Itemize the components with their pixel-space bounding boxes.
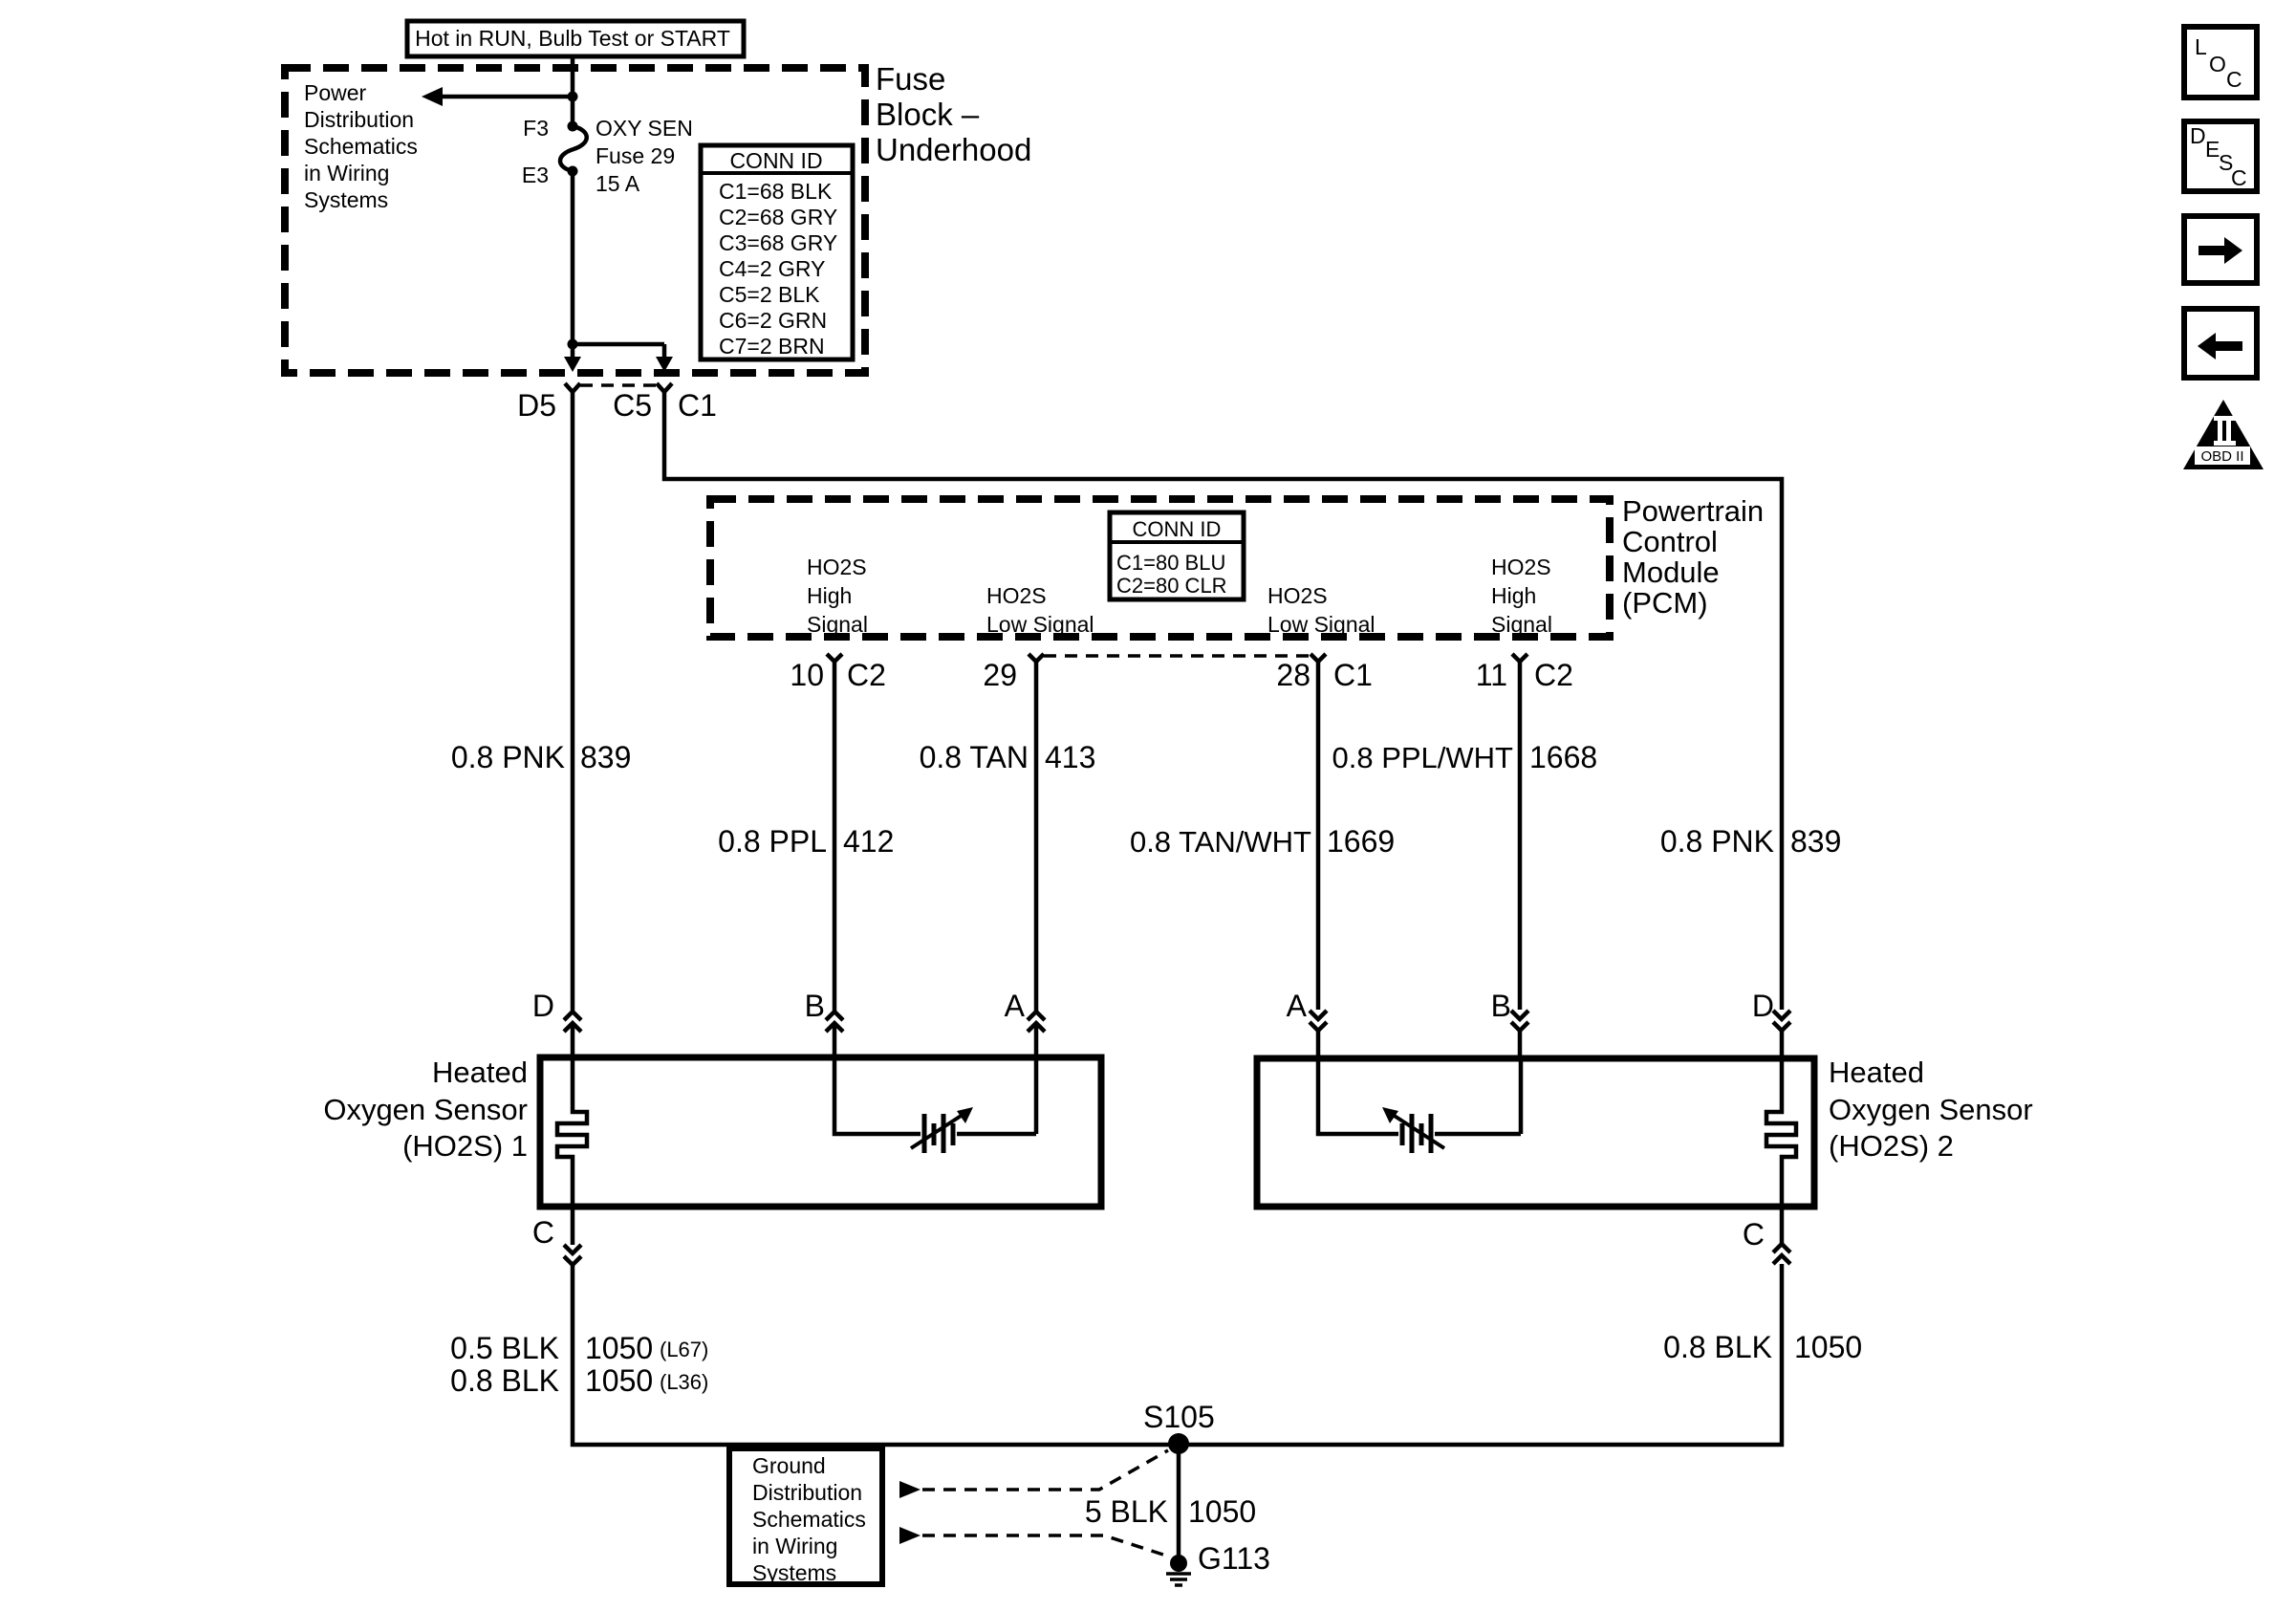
svg-text:Underhood: Underhood: [876, 132, 1031, 167]
svg-text:839: 839: [1790, 824, 1841, 859]
svg-text:High: High: [1491, 583, 1536, 608]
wire: branch to C1: [573, 344, 664, 358]
svg-text:(HO2S) 2: (HO2S) 2: [1829, 1129, 1954, 1163]
conn id table (fuse block): [701, 145, 853, 359]
wire: 5 BLK 1050 to ground: [1177, 1444, 1181, 1563]
label: 0.8 BLK 1050 (right): [1663, 1330, 1862, 1364]
svg-text:Module: Module: [1622, 555, 1720, 589]
svg-text:C1=68 BLK: C1=68 BLK: [719, 179, 833, 204]
svg-text:S105: S105: [1143, 1400, 1215, 1434]
svg-text:Low Signal: Low Signal: [1267, 612, 1375, 637]
svg-text:412: 412: [843, 824, 894, 859]
conn id table (PCM): [1110, 512, 1244, 599]
svg-text:Schematics: Schematics: [752, 1507, 866, 1532]
pin 11 C2 connector: [1476, 654, 1573, 692]
pin 10 C2 connector: [790, 654, 886, 692]
svg-text:0.8 PPL: 0.8 PPL: [718, 824, 827, 859]
svg-text:C1: C1: [1333, 658, 1373, 692]
svg-text:0.8 PPL/WHT: 0.8 PPL/WHT: [1332, 741, 1514, 774]
heater element (HO2S1): [557, 1057, 587, 1207]
svg-text:Signal: Signal: [807, 612, 868, 637]
svg-text:C: C: [532, 1215, 554, 1250]
svg-text:A: A: [1287, 989, 1308, 1023]
connector C5 | C1: [613, 383, 717, 423]
svg-text:1050: 1050: [585, 1363, 653, 1398]
icon arrow left: [2184, 309, 2257, 378]
svg-text:Fuse 29: Fuse 29: [596, 143, 675, 168]
svg-text:1050: 1050: [1188, 1494, 1256, 1529]
svg-text:Distribution: Distribution: [304, 107, 414, 132]
label: HO2S High Signal (right): [1491, 555, 1552, 637]
wire: TAN 413: [1034, 662, 1039, 1011]
svg-text:Oxygen Sensor: Oxygen Sensor: [323, 1093, 528, 1126]
connector A (HO2S1): [1005, 989, 1045, 1057]
connector D5: [517, 383, 580, 423]
svg-text:(L67): (L67): [660, 1338, 708, 1361]
svg-text:(L36): (L36): [660, 1370, 708, 1394]
svg-text:Control: Control: [1622, 525, 1718, 558]
connector C (HO2S1): [532, 1207, 581, 1265]
svg-text:0.8 TAN: 0.8 TAN: [920, 740, 1029, 774]
heater element (HO2S2): [1766, 1058, 1796, 1207]
connector B (HO2S1): [805, 989, 843, 1057]
connector C (HO2S2): [1743, 1207, 1790, 1264]
svg-text:C7=2 BRN: C7=2 BRN: [719, 334, 825, 359]
svg-text:413: 413: [1045, 740, 1095, 774]
svg-text:High: High: [807, 583, 852, 608]
svg-text:Schematics: Schematics: [304, 134, 418, 159]
svg-text:G113: G113: [1198, 1541, 1270, 1576]
svg-text:D: D: [1752, 989, 1774, 1023]
svg-text:HO2S: HO2S: [1491, 555, 1551, 579]
svg-text:Systems: Systems: [752, 1560, 836, 1585]
svg-text:C: C: [2226, 67, 2242, 92]
svg-text:0.8 TAN/WHT: 0.8 TAN/WHT: [1130, 825, 1311, 859]
svg-text:Heated: Heated: [1829, 1056, 1924, 1089]
sensor cell (HO2S2): [1318, 1058, 1521, 1153]
svg-text:1669: 1669: [1327, 824, 1395, 859]
svg-text:O: O: [2209, 52, 2226, 76]
label: Heated Oxygen Sensor (HO2S) 1: [323, 1056, 528, 1163]
label: Heated Oxygen Sensor (HO2S) 2: [1829, 1056, 2033, 1163]
svg-text:Signal: Signal: [1491, 612, 1552, 637]
connector D (HO2S2): [1752, 989, 1790, 1058]
svg-text:Low Signal: Low Signal: [986, 612, 1094, 637]
svg-text:F3: F3: [523, 116, 549, 141]
wire: branch to power distribution arrow: [441, 95, 573, 99]
svg-text:5 BLK: 5 BLK: [1085, 1494, 1168, 1529]
label: Powertrain Control Module (PCM): [1622, 494, 1764, 620]
svg-text:C1=80 BLU: C1=80 BLU: [1116, 551, 1225, 575]
splice S105: [1143, 1400, 1215, 1454]
wire: PPL 412: [833, 662, 837, 1011]
svg-text:11: 11: [1476, 658, 1507, 692]
svg-text:C6=2 GRN: C6=2 GRN: [719, 308, 827, 333]
svg-text:in Wiring: in Wiring: [304, 161, 389, 185]
svg-text:28: 28: [1276, 658, 1310, 692]
dashed reference arrow upper: [899, 1450, 1168, 1498]
svg-text:1668: 1668: [1529, 740, 1597, 774]
svg-text:D: D: [2190, 123, 2206, 148]
svg-text:OXY SEN: OXY SEN: [596, 116, 693, 141]
sensor cell (HO2S1): [834, 1057, 1036, 1153]
svg-text:Powertrain: Powertrain: [1622, 494, 1764, 528]
ground distribution label box: [729, 1448, 882, 1585]
svg-text:B: B: [1491, 989, 1511, 1023]
svg-text:E3: E3: [522, 163, 549, 187]
svg-text:Distribution: Distribution: [752, 1480, 862, 1505]
icon arrow right: [2184, 216, 2257, 283]
svg-text:OBD II: OBD II: [2200, 448, 2243, 465]
svg-text:Oxygen Sensor: Oxygen Sensor: [1829, 1093, 2033, 1126]
wire: dashed connector tie D5-C5: [580, 383, 657, 387]
wire: feed from Hot label into fuse block: [571, 56, 575, 122]
label: 0.5 BLK 1050 (L67) / 0.8 BLK 1050 (L36): [450, 1331, 708, 1398]
connector B (HO2S2): [1491, 989, 1528, 1058]
pin 28 C1 connector: [1276, 654, 1373, 692]
svg-text:C3=68 GRY: C3=68 GRY: [719, 230, 837, 255]
label: HO2S High Signal (left): [807, 555, 868, 637]
pin 29 connector: [983, 654, 1044, 692]
label: HO2S Low Signal (left): [986, 583, 1094, 637]
connector D (HO2S1): [532, 989, 581, 1057]
svg-text:C: C: [1743, 1217, 1765, 1252]
wire: fuse output down to branch: [571, 171, 575, 344]
svg-text:29: 29: [983, 658, 1017, 692]
svg-text:Fuse: Fuse: [876, 61, 945, 97]
svg-text:L: L: [2195, 34, 2207, 59]
svg-text:0.8 PNK: 0.8 PNK: [451, 740, 565, 774]
svg-text:HO2S: HO2S: [986, 583, 1047, 608]
svg-text:C5: C5: [613, 388, 652, 423]
svg-text:839: 839: [580, 740, 631, 774]
svg-text:HO2S: HO2S: [1267, 583, 1328, 608]
svg-text:D: D: [532, 989, 554, 1023]
icon LOC: [2184, 27, 2257, 98]
svg-text:C4=2 GRY: C4=2 GRY: [719, 256, 825, 281]
svg-text:CONN ID: CONN ID: [729, 148, 822, 173]
wire: TAN/WHT 1669: [1316, 662, 1321, 1010]
svg-text:0.8 PNK: 0.8 PNK: [1660, 824, 1774, 859]
svg-text:C2: C2: [847, 658, 886, 692]
svg-text:in Wiring: in Wiring: [752, 1534, 837, 1558]
svg-text:(PCM): (PCM): [1622, 586, 1708, 620]
svg-text:0.5 BLK: 0.5 BLK: [450, 1331, 559, 1365]
svg-text:C: C: [2231, 165, 2247, 190]
PCM dashed box: [710, 499, 1610, 637]
HO2S1 box: [540, 1057, 1101, 1207]
label box: Hot in RUN, Bulb Test or START: [407, 21, 744, 56]
svg-text:10: 10: [790, 658, 824, 692]
svg-text:Block –: Block –: [876, 97, 980, 132]
svg-text:C2=80 CLR: C2=80 CLR: [1116, 574, 1227, 598]
svg-text:0.8 BLK: 0.8 BLK: [1663, 1330, 1772, 1364]
svg-text:15 A: 15 A: [596, 171, 640, 196]
svg-text:D5: D5: [517, 388, 556, 423]
label: Power Distribution Schematics in Wiring Systems: [304, 80, 418, 212]
ground G113: [1166, 1541, 1270, 1585]
svg-text:1050: 1050: [1794, 1330, 1862, 1364]
svg-text:C2: C2: [1534, 658, 1573, 692]
svg-text:(HO2S) 1: (HO2S) 1: [402, 1129, 528, 1163]
svg-text:1050: 1050: [585, 1331, 653, 1365]
wire: PNK 839 left (D5 to HO2S1 D): [571, 392, 575, 1011]
wire: BLK 1050 ground bus: [573, 1264, 1782, 1445]
wire: PPL/WHT 1668: [1518, 662, 1523, 1010]
wire: PNK 839 right (C1 across to HO2S2 D): [664, 392, 1782, 1010]
svg-text:C5=2 BLK: C5=2 BLK: [719, 282, 820, 307]
HO2S2 box: [1257, 1058, 1814, 1207]
label: Fuse Block - Underhood: [876, 61, 1031, 167]
fuse F29 OXY SEN 15A: [522, 116, 693, 196]
svg-text:HO2S: HO2S: [807, 555, 867, 579]
wire: dashed connector tie 29-28: [1044, 654, 1310, 658]
svg-text:Hot in RUN, Bulb Test or START: Hot in RUN, Bulb Test or START: [415, 26, 730, 51]
icon DESC: [2184, 121, 2257, 191]
connector A (HO2S2): [1287, 989, 1327, 1058]
svg-text:Power: Power: [304, 80, 367, 105]
svg-text:0.8 BLK: 0.8 BLK: [450, 1363, 559, 1398]
svg-text:A: A: [1005, 989, 1026, 1023]
svg-text:Systems: Systems: [304, 187, 388, 212]
dashed reference arrow lower: [899, 1527, 1166, 1556]
label: HO2S Low Signal (right): [1267, 583, 1375, 637]
svg-text:CONN ID: CONN ID: [1133, 517, 1222, 541]
svg-text:B: B: [805, 989, 825, 1023]
svg-text:C2=68 GRY: C2=68 GRY: [719, 205, 837, 229]
svg-text:Heated: Heated: [432, 1056, 528, 1089]
svg-text:Ground: Ground: [752, 1453, 826, 1478]
svg-text:C1: C1: [678, 388, 717, 423]
node: branch junction: [568, 339, 578, 350]
node: junction dot power branch: [568, 92, 578, 102]
icon OBD II triangle: [2183, 400, 2264, 469]
fuse block underhood dashed box: [285, 68, 865, 373]
